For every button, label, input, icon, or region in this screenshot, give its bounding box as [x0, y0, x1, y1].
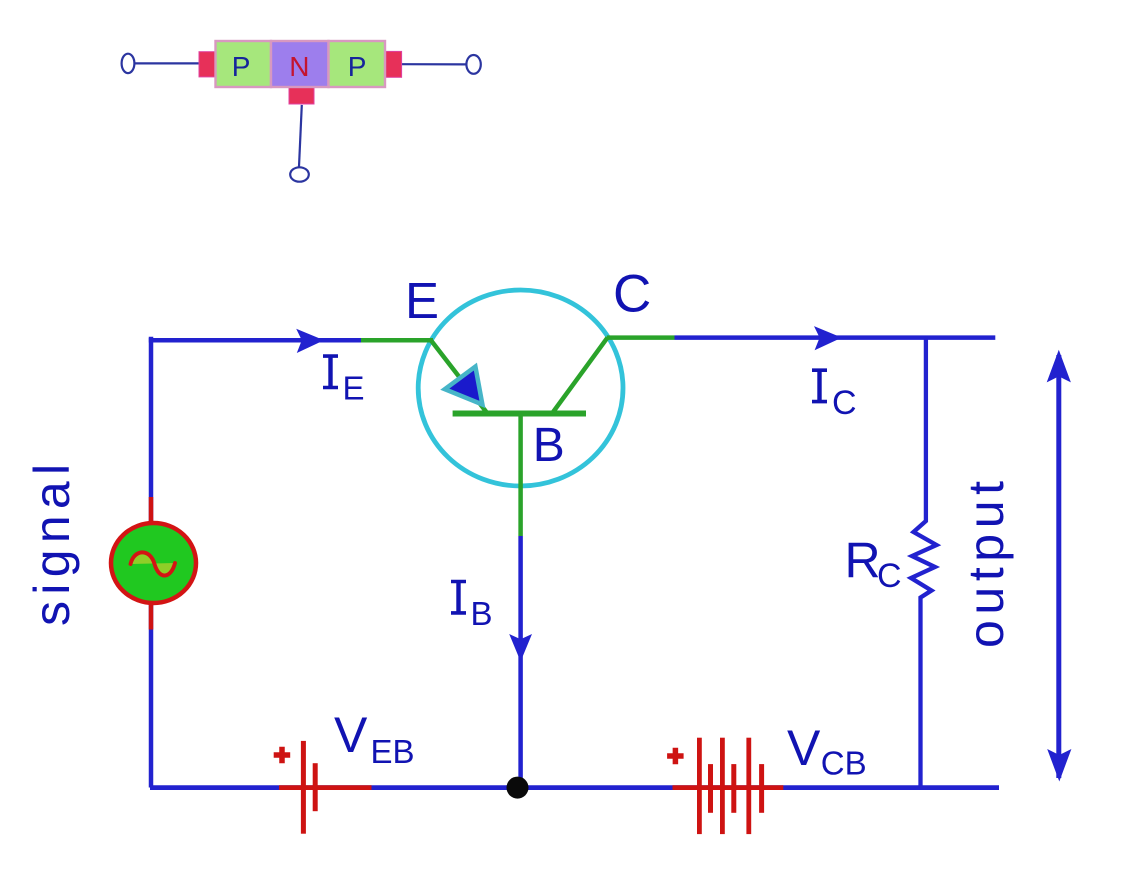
- svg-text:EB: EB: [371, 733, 415, 770]
- svg-text:CB: CB: [821, 745, 867, 782]
- svg-text:C: C: [613, 265, 651, 324]
- svg-text:C: C: [832, 384, 857, 422]
- svg-text:signal: signal: [24, 458, 80, 626]
- svg-text:B: B: [471, 595, 493, 632]
- svg-text:C: C: [877, 557, 902, 595]
- svg-text:E: E: [405, 272, 439, 329]
- svg-text:V: V: [334, 707, 368, 763]
- svg-text:B: B: [533, 419, 565, 472]
- svg-text:output: output: [958, 475, 1014, 648]
- svg-text:R: R: [845, 533, 881, 589]
- svg-text:P: P: [232, 51, 251, 82]
- svg-text:P: P: [348, 51, 367, 82]
- svg-text:V: V: [787, 720, 821, 776]
- svg-text:N: N: [289, 51, 309, 82]
- svg-text:E: E: [343, 370, 365, 407]
